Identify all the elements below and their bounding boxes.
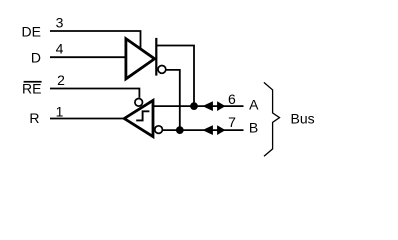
wire DE (pin 3) to driver enable [50, 31, 141, 50]
driver buffer triangle [126, 39, 155, 79]
junction dot node B [176, 126, 184, 134]
wire driver inverting output to node B [166, 70, 180, 127]
svg-text:2: 2 [57, 72, 65, 88]
pin label RE with overline [22, 80, 42, 96]
svg-text:R: R [29, 110, 39, 126]
svg-text:RE: RE [22, 80, 41, 96]
wire driver noninverting output to node A [156, 46, 194, 104]
wire R (pin 1) to receiver output [50, 118, 124, 120]
receiver buffer triangle [124, 100, 153, 136]
wire node A bus line [152, 105, 244, 107]
svg-text:6: 6 [228, 91, 236, 107]
svg-text:3: 3 [56, 15, 64, 31]
svg-text:Bus: Bus [291, 110, 315, 126]
driver inverting output bubble [158, 66, 166, 74]
bidirectional arrowhead B pointing right [217, 125, 225, 135]
svg-text:4: 4 [56, 40, 64, 56]
bidirectional arrowhead A pointing left [202, 101, 213, 111]
svg-text:B: B [249, 120, 258, 136]
bidirectional arrowhead B pointing left [202, 125, 213, 135]
wire RE (pin 2) to receiver enable bubble [50, 89, 139, 98]
wire D (pin 4) to driver input [50, 56, 126, 58]
wire node B bus line [162, 129, 243, 131]
svg-text:D: D [31, 50, 41, 66]
driver output bar [155, 38, 157, 76]
receiver enable bubble (RE) [135, 99, 143, 107]
svg-text:A: A [249, 96, 259, 112]
bus brace [264, 82, 280, 156]
bidirectional arrowhead A pointing right [217, 101, 225, 111]
receiver inverting input bubble [155, 126, 163, 134]
svg-text:1: 1 [56, 103, 64, 119]
svg-text:7: 7 [228, 114, 236, 130]
junction dot node A [190, 102, 198, 110]
svg-text:DE: DE [22, 24, 41, 40]
receiver hysteresis symbol [136, 111, 149, 120]
